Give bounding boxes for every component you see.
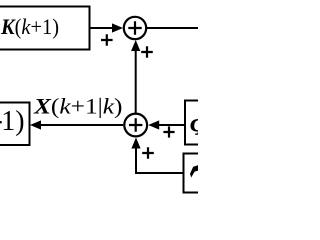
wire sum U1 output to right edge [147,27,198,29]
summing junction U1 [124,17,146,39]
plus label (U2 right input) [163,126,174,137]
plus label (U2 bottom input) [142,147,154,159]
arrowhead into sum U1 bottom [131,40,140,51]
svg-text:X(k+1|k): X(k+1|k) [33,94,123,119]
plus label (U1 bottom input) [141,46,153,58]
box K(k+1) [0,7,90,50]
box PHI (clipped right) [185,101,265,145]
wire GAMMA box to sum U2 (L shape) [136,147,184,173]
wire sum U2 output left to delay box [40,124,123,126]
plus label (K input) [101,34,113,46]
wire sum U2 up to sum U1 [135,49,137,113]
svg-text:Φ: Φ [190,111,199,142]
arrowhead into sum U1 left [112,23,123,32]
box GAMMA (clipped right) [184,154,264,193]
svg-text:K(k+1): K(k+1) [0,14,59,39]
arrowhead into sum U2 bottom [131,138,140,149]
summing junction U2 [124,114,147,137]
clipped plus sign sliver [0,121,2,123]
arrowhead into sum U2 right [148,120,159,129]
wire PHI box to sum U2 [158,124,185,126]
arrowhead into delay box [30,120,41,129]
svg-text:1): 1) [1,106,24,137]
label GAMMA [190,165,198,177]
wire from K box to sum U1 [89,27,114,29]
delay box (clipped left) [0,103,30,146]
